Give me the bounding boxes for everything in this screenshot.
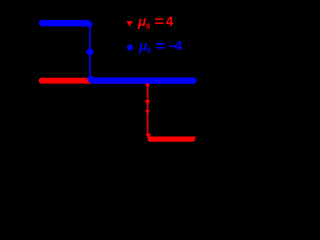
- svg-text:μs=4: μs=4: [137, 14, 174, 30]
- svg-text:μs=−4: μs=−4: [138, 38, 183, 54]
